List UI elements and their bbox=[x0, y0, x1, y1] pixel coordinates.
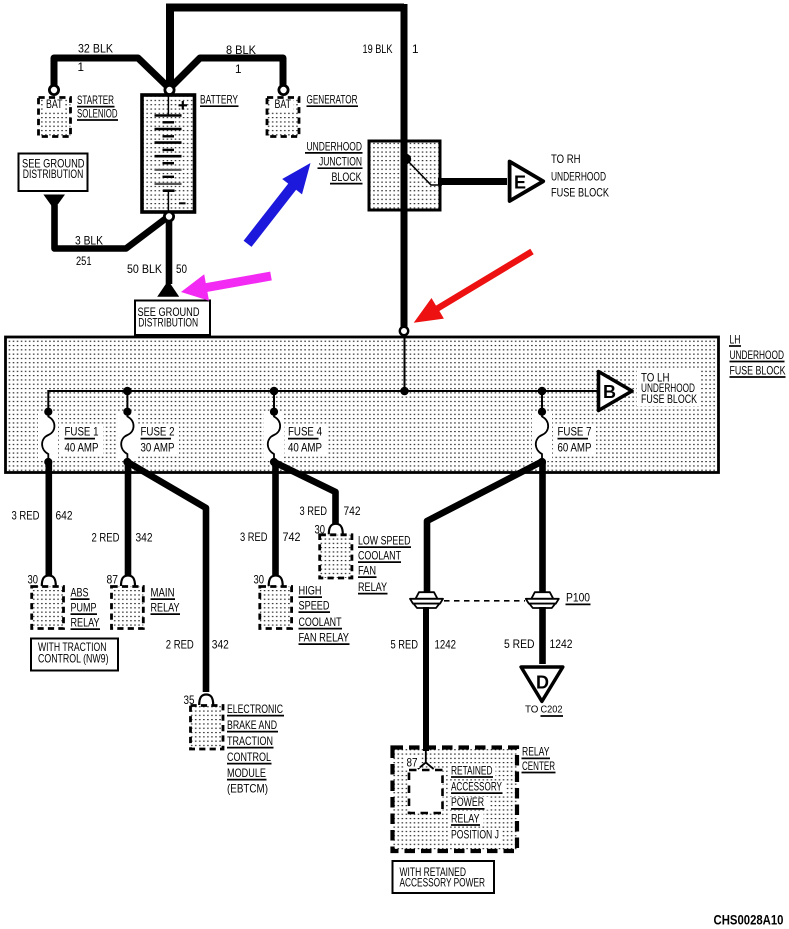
pin arc HIGH (30) bbox=[269, 576, 283, 587]
label POWER bbox=[449, 796, 489, 810]
svg-text:1: 1 bbox=[78, 61, 85, 74]
label 87 (RAP) bbox=[405, 757, 420, 770]
label 3 RED (742 high) bbox=[240, 531, 268, 544]
fuse F2 element bbox=[121, 408, 133, 467]
label 19 BLK bbox=[363, 43, 393, 56]
EBTCM box bbox=[191, 706, 224, 750]
wire right grommet to D triangle bbox=[539, 607, 546, 664]
svg-text:40 AMP: 40 AMP bbox=[288, 442, 322, 455]
white halo fuse 2 area bbox=[117, 413, 179, 459]
svg-text:FUSE 2: FUSE 2 bbox=[141, 426, 175, 439]
svg-text:UNDERHOOD: UNDERHOOD bbox=[730, 349, 785, 362]
wire 19 BLK vertical bbox=[401, 4, 408, 327]
label UNDERHOOD (to RH) bbox=[551, 171, 606, 184]
label BLOCK bbox=[330, 171, 363, 184]
svg-text:RELAY: RELAY bbox=[522, 746, 550, 759]
svg-text:251: 251 bbox=[76, 255, 92, 268]
svg-text:8 BLK: 8 BLK bbox=[226, 44, 256, 57]
svg-text:BRAKE AND: BRAKE AND bbox=[227, 719, 277, 732]
label RELAY (center) bbox=[522, 746, 551, 759]
terminal circle battery top bbox=[165, 85, 174, 94]
pin arc ABS (30) bbox=[42, 576, 56, 587]
label UNDERHOOD (junction block) bbox=[305, 140, 363, 153]
fuse F4 element bbox=[268, 408, 280, 467]
label BAT (generator) bbox=[275, 98, 292, 111]
wire fuse7 to left grommet branch bbox=[427, 462, 541, 593]
ground triangle under upper box bbox=[43, 195, 65, 210]
label MODULE bbox=[227, 767, 267, 780]
label BATTERY bbox=[200, 94, 239, 107]
junction dot bus fuse 7 bbox=[538, 387, 547, 396]
svg-text:COOLANT: COOLANT bbox=[358, 550, 401, 563]
svg-text:ACCESSORY POWER: ACCESSORY POWER bbox=[400, 876, 486, 889]
svg-text:D: D bbox=[536, 673, 549, 693]
svg-text:3 BLK: 3 BLK bbox=[75, 235, 103, 248]
label CENTER bbox=[522, 760, 556, 773]
relay center outer box bbox=[393, 748, 518, 852]
svg-text:30: 30 bbox=[28, 574, 39, 587]
wire battery positive vertical bbox=[166, 4, 174, 85]
svg-text:POSITION J: POSITION J bbox=[451, 829, 499, 842]
main relay box bbox=[112, 587, 144, 629]
wire fuse7 straight down to right grommet bbox=[539, 462, 546, 593]
svg-text:87: 87 bbox=[407, 757, 418, 770]
svg-text:FUSE 1: FUSE 1 bbox=[65, 426, 99, 439]
fuse 4 drop line bbox=[273, 391, 275, 412]
RAP relay inner dashed box bbox=[409, 770, 443, 813]
svg-text:MODULE: MODULE bbox=[227, 767, 266, 780]
fuse 7 drop line bbox=[541, 391, 543, 412]
svg-text:30 AMP: 30 AMP bbox=[141, 442, 175, 455]
svg-text:2 RED: 2 RED bbox=[166, 639, 194, 652]
svg-text:COOLANT: COOLANT bbox=[299, 616, 342, 629]
wire 50 BLK battery to ground bbox=[166, 221, 173, 284]
svg-text:DISTRIBUTION: DISTRIBUTION bbox=[23, 168, 84, 181]
svg-text:UNDERHOOD: UNDERHOOD bbox=[551, 171, 606, 184]
with retained accessory power box bbox=[393, 861, 495, 893]
label 1 (19 BLK) bbox=[412, 43, 419, 56]
starter solenoid box bbox=[39, 98, 71, 137]
high speed coolant fan relay box bbox=[260, 587, 292, 629]
with traction control box bbox=[31, 639, 118, 671]
svg-text:ABS: ABS bbox=[71, 587, 89, 600]
generator box bbox=[267, 98, 299, 137]
svg-text:B: B bbox=[603, 382, 616, 402]
label RELAY (RAP) bbox=[449, 812, 484, 826]
label 30 (LOW) bbox=[315, 524, 326, 537]
svg-text:5 RED: 5 RED bbox=[504, 638, 535, 651]
svg-text:HIGH: HIGH bbox=[299, 585, 322, 598]
label 5 RED (left) bbox=[391, 639, 419, 652]
junction dot inside block bbox=[401, 154, 411, 164]
svg-text:1242: 1242 bbox=[550, 638, 573, 651]
svg-text:CONTROL: CONTROL bbox=[227, 751, 271, 764]
label FUSE BLOCK (to RH) bbox=[551, 186, 609, 199]
label RETAINED bbox=[449, 764, 496, 778]
label 30 (ABS) bbox=[28, 574, 39, 587]
svg-text:342: 342 bbox=[212, 639, 229, 652]
svg-text:JUNCTION: JUNCTION bbox=[319, 156, 362, 169]
label BRAKE AND bbox=[227, 719, 278, 732]
svg-text:STARTER: STARTER bbox=[77, 94, 114, 107]
wire fuse1 to ABS pump relay bbox=[45, 462, 52, 576]
svg-text:FAN: FAN bbox=[358, 565, 376, 578]
wire to E triangle bbox=[438, 178, 507, 185]
svg-text:742: 742 bbox=[344, 505, 361, 518]
label 3 BLK bbox=[75, 235, 103, 248]
junction dot bus fuse 4 bbox=[270, 387, 279, 396]
label 3 RED (742 low) bbox=[300, 505, 328, 518]
svg-text:POWER: POWER bbox=[451, 796, 484, 809]
svg-text:RELAY: RELAY bbox=[71, 617, 100, 630]
low speed coolant fan relay box bbox=[320, 535, 352, 578]
label 50 bbox=[176, 263, 187, 276]
label 5 RED (right) bbox=[504, 638, 535, 651]
label FUSE 4 / 40 AMP bbox=[288, 426, 322, 455]
svg-text:FUSE BLOCK: FUSE BLOCK bbox=[641, 393, 697, 406]
svg-text:C202: C202 bbox=[541, 705, 563, 716]
label TO C202 bbox=[525, 705, 563, 716]
label MAIN bbox=[151, 587, 176, 600]
wire top bus from battery to 19 BLK drop bbox=[166, 4, 404, 12]
label STARTER bbox=[77, 94, 115, 107]
label JUNCTION bbox=[318, 156, 363, 169]
label FAN (low) bbox=[358, 565, 377, 578]
magenta annotation arrow bbox=[181, 272, 272, 301]
grommet right P100 bbox=[526, 592, 559, 608]
svg-text:FUSE BLOCK: FUSE BLOCK bbox=[730, 365, 786, 378]
white halo fuse 1 area bbox=[38, 413, 103, 459]
label FAN RELAY (high) bbox=[299, 632, 350, 645]
label RELAY (main) bbox=[151, 602, 181, 615]
svg-text:CHS0028A10: CHS0028A10 bbox=[714, 913, 784, 928]
svg-text:FUSE BLOCK: FUSE BLOCK bbox=[551, 186, 609, 199]
svg-text:1: 1 bbox=[412, 43, 419, 56]
label UNDERHOOD (to LH) bbox=[641, 382, 695, 395]
connector triangle D bbox=[521, 667, 563, 701]
svg-text:50 BLK: 50 BLK bbox=[127, 263, 162, 276]
label 1 (8 BLK) bbox=[235, 63, 242, 76]
ABS pump relay box bbox=[32, 587, 64, 629]
wire fuse2 to EBTCM bbox=[127, 462, 206, 692]
wire fuse4 to low speed fan relay bbox=[274, 462, 336, 526]
svg-text:P100: P100 bbox=[566, 592, 590, 605]
junction dot bus / feed bbox=[400, 387, 409, 396]
label FUSE BLOCK (to LH) bbox=[641, 393, 697, 406]
connector triangle B bbox=[599, 372, 633, 411]
svg-text:30: 30 bbox=[254, 574, 265, 587]
svg-text:(EBTCM): (EBTCM) bbox=[227, 783, 268, 796]
svg-text:CONTROL (NW9): CONTROL (NW9) bbox=[38, 653, 109, 666]
label GENERATOR bbox=[307, 94, 359, 107]
label 342 (main) bbox=[136, 532, 153, 545]
svg-text:60 AMP: 60 AMP bbox=[558, 442, 592, 455]
svg-text:5 RED: 5 RED bbox=[391, 639, 419, 652]
svg-text:CENTER: CENTER bbox=[522, 760, 555, 773]
terminal circle at fuse block entry bbox=[400, 327, 408, 335]
svg-text:ELECTRONIC: ELECTRONIC bbox=[227, 703, 283, 716]
LH underhood fuse block body bbox=[6, 337, 719, 473]
label 32 BLK bbox=[78, 43, 113, 56]
svg-text:TO: TO bbox=[525, 705, 539, 716]
red annotation arrow bbox=[414, 249, 534, 323]
label ACCESSORY bbox=[449, 780, 506, 793]
svg-text:FAN RELAY: FAN RELAY bbox=[299, 632, 350, 645]
svg-text:TO RH: TO RH bbox=[551, 153, 581, 166]
svg-text:87: 87 bbox=[107, 574, 119, 587]
thin feed line from entry circle to bus bbox=[404, 338, 406, 391]
label TRACTION bbox=[227, 735, 274, 748]
svg-text:342: 342 bbox=[136, 532, 153, 545]
label FUSE 1 / 40 AMP bbox=[65, 426, 99, 455]
pin arc LOW (30) bbox=[329, 524, 343, 535]
label 642 bbox=[56, 510, 73, 523]
label TO LH bbox=[641, 371, 670, 384]
svg-text:RETAINED: RETAINED bbox=[451, 764, 493, 777]
svg-text:ACCESSORY: ACCESSORY bbox=[451, 780, 502, 793]
label 1242 (right) bbox=[550, 638, 573, 651]
svg-text:BAT: BAT bbox=[46, 98, 63, 111]
wire fuse2 to main relay bbox=[125, 462, 132, 575]
label FUSE 2 / 30 AMP bbox=[141, 426, 175, 455]
ground triangle above lower see-ground box bbox=[157, 281, 179, 297]
label 742 (low) bbox=[344, 505, 361, 518]
svg-text:E: E bbox=[514, 173, 526, 193]
label 251 bbox=[76, 255, 92, 268]
svg-text:2 RED: 2 RED bbox=[92, 532, 120, 545]
svg-text:3 RED: 3 RED bbox=[240, 531, 268, 544]
terminal circle starter solenoid bbox=[49, 85, 58, 94]
fuse 2 drop line bbox=[126, 391, 128, 412]
svg-text:SPEED: SPEED bbox=[299, 600, 330, 613]
label (EBTCM) bbox=[227, 783, 268, 796]
svg-text:LOW SPEED: LOW SPEED bbox=[358, 535, 411, 548]
wire 32 BLK to starter solenoid bbox=[54, 58, 168, 87]
svg-text:SOLENIOD: SOLENIOD bbox=[77, 108, 118, 121]
wire 8 BLK to generator bbox=[171, 58, 283, 87]
see ground distribution box (upper) bbox=[19, 154, 88, 192]
label UNDERHOOD (outside right) bbox=[730, 349, 785, 362]
label BAT (starter) bbox=[46, 98, 63, 111]
svg-text:19 BLK: 19 BLK bbox=[363, 43, 393, 56]
bus line inside fuse block bbox=[48, 391, 597, 412]
label 1242 (left) bbox=[435, 639, 457, 652]
label 30 (HIGH) bbox=[254, 574, 265, 587]
white halo fuse 4 area bbox=[264, 413, 327, 459]
svg-text:50: 50 bbox=[176, 263, 187, 276]
label 2 RED (342 main) bbox=[92, 532, 120, 545]
svg-text:RELAY: RELAY bbox=[451, 812, 480, 825]
label CONTROL bbox=[227, 751, 272, 764]
label ABS bbox=[71, 587, 90, 600]
svg-text:UNDERHOOD: UNDERHOOD bbox=[307, 140, 363, 153]
wire fuse4 to high speed fan relay bbox=[272, 462, 279, 575]
svg-text:BATTERY: BATTERY bbox=[200, 94, 238, 107]
svg-text:3 RED: 3 RED bbox=[300, 505, 328, 518]
label ELECTRONIC bbox=[227, 703, 284, 716]
blue annotation arrow bbox=[244, 163, 311, 247]
label 1 (32 BLK) bbox=[78, 61, 85, 74]
label SOLENIOD bbox=[77, 108, 118, 121]
label 2 RED (342 EBTCM) bbox=[166, 639, 194, 652]
terminal circle battery bottom bbox=[164, 212, 173, 221]
svg-text:DISTRIBUTION: DISTRIBUTION bbox=[138, 317, 198, 330]
junction dot bus fuse 2 bbox=[123, 387, 132, 396]
svg-text:1: 1 bbox=[235, 63, 242, 76]
label FUSE BLOCK (outside right) bbox=[730, 365, 786, 378]
svg-text:LH: LH bbox=[730, 334, 741, 347]
label TO RH bbox=[551, 153, 581, 166]
svg-text:BLOCK: BLOCK bbox=[332, 171, 362, 184]
label SPEED bbox=[299, 600, 331, 613]
svg-text:RELAY: RELAY bbox=[358, 581, 387, 594]
svg-text:1242: 1242 bbox=[435, 639, 457, 652]
svg-text:RELAY: RELAY bbox=[151, 602, 180, 615]
label COOLANT (high) bbox=[299, 616, 343, 629]
svg-text:40 AMP: 40 AMP bbox=[65, 442, 99, 455]
svg-text:742: 742 bbox=[283, 531, 301, 544]
label FUSE 7 / 60 AMP bbox=[558, 426, 592, 455]
svg-text:642: 642 bbox=[56, 510, 73, 523]
svg-text:TRACTION: TRACTION bbox=[227, 735, 273, 748]
grommet left bbox=[410, 592, 443, 608]
label RELAY (low) bbox=[358, 581, 388, 594]
wire 19 BLK through junction block bbox=[401, 141, 408, 210]
svg-text:FUSE 7: FUSE 7 bbox=[558, 426, 592, 439]
label 35 (EBTCM) bbox=[184, 694, 195, 707]
underhood junction block box bbox=[369, 141, 440, 210]
white halo B triangle text bbox=[637, 370, 701, 406]
drawing number CHS0028A10 bbox=[714, 913, 784, 928]
label RELAY (ABS) bbox=[71, 617, 101, 630]
pin arc MAIN (87) bbox=[121, 576, 135, 587]
label HIGH bbox=[299, 585, 323, 598]
terminal circle generator bbox=[279, 85, 288, 94]
thin tap line inside junction block bbox=[406, 159, 442, 185]
label 8 BLK bbox=[226, 44, 256, 57]
dashed link between grommets bbox=[444, 600, 525, 602]
pin arc EBTCM (35) bbox=[199, 695, 213, 706]
fuse F1 element bbox=[42, 408, 54, 467]
white halo fuse 7 area bbox=[532, 413, 596, 459]
label LOW SPEED bbox=[358, 535, 411, 548]
svg-text:PUMP: PUMP bbox=[71, 602, 97, 615]
svg-text:32 BLK: 32 BLK bbox=[78, 43, 113, 56]
svg-text:3 RED: 3 RED bbox=[12, 510, 40, 523]
svg-text:BAT: BAT bbox=[275, 98, 292, 111]
label 50 BLK bbox=[127, 263, 162, 276]
label COOLANT (low) bbox=[358, 550, 401, 563]
label 87 (MAIN) bbox=[107, 574, 119, 587]
label LH (outside right) bbox=[729, 334, 741, 347]
label P100 bbox=[566, 592, 591, 605]
svg-text:FUSE 4: FUSE 4 bbox=[288, 426, 322, 439]
label 3 RED (642) bbox=[12, 510, 40, 523]
see ground distribution box (lower) bbox=[135, 301, 210, 336]
pin split symbol 87 (RAP relay) bbox=[418, 750, 434, 769]
label PUMP bbox=[71, 602, 98, 615]
battery B1 bbox=[142, 95, 195, 212]
connector triangle E bbox=[510, 162, 544, 202]
fuse F7 element bbox=[536, 408, 548, 467]
label 342 (EBTCM) bbox=[212, 639, 229, 652]
wire stub into relay center bbox=[423, 745, 429, 751]
wire 3 BLK ground to battery negative bbox=[55, 205, 168, 249]
svg-text:GENERATOR: GENERATOR bbox=[307, 94, 358, 107]
svg-text:MAIN: MAIN bbox=[151, 587, 175, 600]
wire left grommet to relay center bbox=[423, 607, 429, 757]
label 742 (high) bbox=[283, 531, 301, 544]
label POSITION J bbox=[449, 829, 503, 842]
